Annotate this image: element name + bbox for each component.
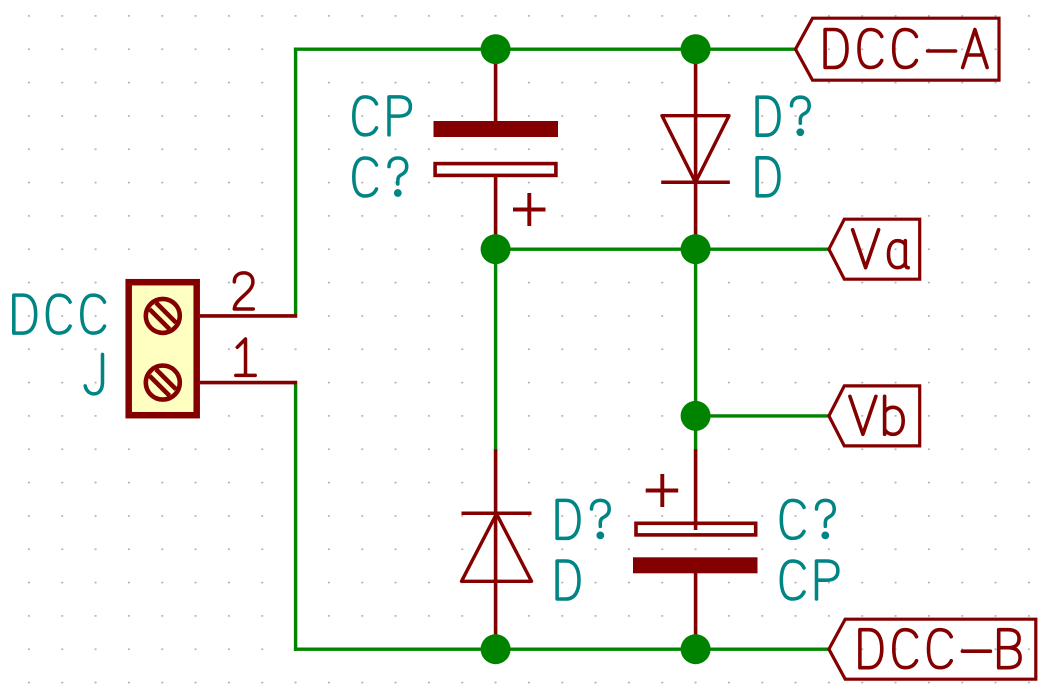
diode D2 (bottom, cathode up) [462, 449, 532, 649]
screw pin1 [146, 366, 180, 400]
diode D1 (top, cathode down) [661, 49, 730, 249]
junction mid-left [481, 234, 511, 264]
field C? (bottom cap ref) [781, 500, 804, 538]
field D? (top diode ref) [757, 97, 779, 135]
screw pin2 [146, 299, 180, 333]
pin 2 lead [200, 314, 297, 318]
wire middle Va wire [496, 247, 829, 250]
field C? (top cap ref) [354, 158, 377, 196]
junction top-right [681, 34, 711, 64]
wire branch1 vertical green [494, 249, 497, 449]
field D (top diode value) [757, 158, 779, 196]
field D (bottom diode value) [557, 561, 579, 599]
junction bottom-right [681, 634, 711, 664]
field CP (top cap value) [354, 97, 377, 135]
wire Vb wire [696, 414, 829, 417]
junction bottom-left [481, 634, 511, 664]
field J [85, 354, 102, 394]
pin 1 lead [200, 381, 297, 385]
wire left vertical lower [294, 383, 297, 650]
junction mid-right [681, 234, 711, 264]
wire left vertical upper [294, 49, 297, 316]
wire top bus to DCC-A [296, 48, 796, 51]
junction Vb [681, 401, 711, 431]
field CP (bottom cap value) [781, 561, 804, 599]
connector J1 screw terminal [129, 282, 197, 415]
field DCC [14, 295, 36, 333]
field D? (bottom diode ref) [557, 500, 579, 538]
global label Vb [829, 386, 920, 446]
capacitor C1 polarized (top) [434, 49, 559, 249]
pin number 1 [236, 339, 255, 375]
wire bottom bus to DCC-B [296, 648, 829, 651]
pin number 2 [234, 273, 253, 309]
junction top-left [481, 34, 511, 64]
global label Va [829, 219, 920, 279]
global label DCC-B [829, 619, 1036, 679]
capacitor C2 polarized (bottom) [633, 449, 758, 649]
global label DCC-A [796, 18, 1000, 80]
wire branch2 vertical green [694, 249, 697, 449]
